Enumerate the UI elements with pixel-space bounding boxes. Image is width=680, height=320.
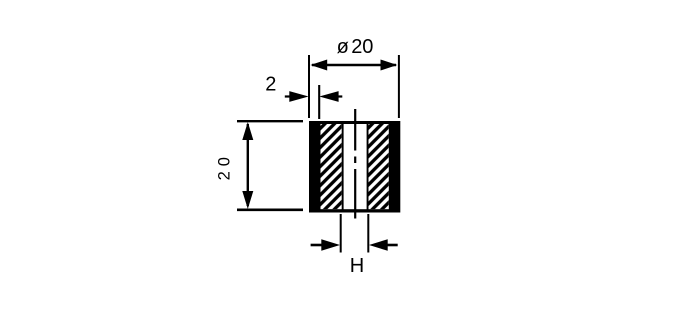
part body: black outer block (side walls, top/bottom edges, bore edge lines) (309, 121, 400, 213)
dimension 20: top arrowhead (242, 122, 253, 140)
svg-text:20: 20 (215, 152, 233, 180)
dimension H: right arrow (pointing left) (369, 239, 398, 251)
dimension 2 (wall thickness): extension line (318, 85, 320, 119)
dimension H: right extension line (367, 214, 369, 253)
svg-text:2: 2 (265, 74, 276, 96)
dimension 20 (height): top extension line (237, 120, 303, 122)
dimension ø20: right extension line (398, 55, 400, 118)
svg-text:ø: ø (337, 36, 349, 58)
dimension ø20: label (337, 36, 374, 58)
dimension 2: right arrow (pointing left) (319, 91, 342, 102)
dimension H (bore): left extension line (340, 214, 342, 253)
left cross-section hatch area (321, 124, 342, 209)
svg-text:H: H (350, 255, 364, 277)
dimension ø20: dimension line (312, 64, 396, 66)
dimension H: left arrow (pointing right) (311, 239, 340, 251)
dimension 20: bottom extension line (237, 209, 303, 212)
dimension ø20: right arrowhead (381, 60, 398, 71)
centerline (dash-dot axis) (354, 109, 356, 219)
dimension ø20: left arrowhead (310, 60, 327, 71)
dimension 2: left arrow (pointing right) (285, 91, 309, 102)
bore (white channel) (344, 124, 367, 209)
dimension 20: dimension line (247, 124, 249, 206)
svg-text:20: 20 (351, 36, 373, 58)
dimension ø20: left extension line (308, 55, 310, 118)
dimension 20: bottom arrowhead (242, 191, 253, 209)
right cross-section hatch area (369, 124, 389, 209)
